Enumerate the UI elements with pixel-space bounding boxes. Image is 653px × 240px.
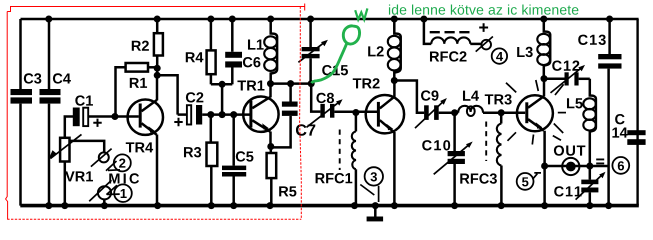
transistor TR4 — [128, 75, 163, 205]
node TR1 base bias — [219, 111, 226, 118]
label RFC2 — [430, 51, 467, 61]
resistor R1 — [116, 63, 158, 118]
label L5 — [567, 98, 583, 108]
resistor R4 — [207, 19, 216, 84]
digit test point 1 — [121, 189, 127, 198]
capacitor C3 — [11, 19, 33, 206]
node C6 top rail — [229, 16, 236, 23]
label C4 — [53, 73, 71, 83]
node TR2 collector — [391, 77, 398, 84]
green arrow — [355, 8, 367, 19]
node C15 top — [307, 16, 314, 23]
wire TR1 collector node — [271, 82, 312, 85]
label TR3 — [485, 94, 512, 104]
OUT terminal — [562, 158, 579, 175]
node TR3 emitter / out — [541, 163, 548, 170]
node VR1 bottom — [61, 202, 68, 209]
transistor TR1 — [243, 84, 278, 147]
inductor L2 — [388, 19, 401, 81]
label C5 — [236, 151, 254, 161]
node L2 top — [391, 16, 398, 23]
label RFC1 — [316, 173, 353, 183]
label OUT — [554, 145, 585, 155]
node C2 branch junction — [154, 72, 161, 79]
wire TR4 base — [112, 115, 139, 118]
red frame left edge — [6, 12, 8, 220]
node R4 top — [207, 16, 214, 23]
label C7 — [296, 124, 315, 135]
node RFC2 rail — [420, 16, 427, 23]
node R3 top — [207, 111, 214, 118]
node R2 top — [154, 16, 161, 23]
antenna trimmer plates — [596, 159, 604, 163]
node RFC3 bottom — [498, 202, 505, 209]
wire output line — [545, 165, 609, 168]
capacitor C5 — [222, 115, 246, 206]
label RFC3 — [460, 173, 497, 183]
node mic ground — [101, 202, 108, 209]
node C7 top — [287, 80, 294, 87]
node C5 top — [230, 111, 237, 118]
potentiometer VR1 — [48, 134, 82, 205]
inductor L3 — [537, 19, 550, 79]
label MIC — [109, 173, 139, 183]
node TR4 base — [111, 113, 118, 120]
mic terminal 2 probe — [91, 149, 112, 167]
wire C2 branch — [157, 75, 177, 114]
node C5 bottom — [230, 202, 237, 209]
red frame corner tick — [304, 4, 306, 11]
red frame top edge — [7, 7, 304, 12]
inductor L4 — [455, 106, 502, 116]
capacitor C6 — [225, 19, 242, 84]
label TR2 — [353, 78, 380, 88]
variable capacitor C8 — [307, 84, 378, 128]
label C14 line1 — [615, 114, 625, 124]
transistor TR3 — [517, 79, 553, 206]
wire TR3 base — [501, 111, 525, 114]
digit test point 2 — [119, 159, 125, 168]
mic terminal 1 probe — [89, 180, 111, 205]
node ground stem — [372, 202, 379, 209]
transistor TR2 — [366, 81, 404, 206]
digit test point 4 — [496, 52, 503, 61]
capacitor C13 — [598, 19, 621, 206]
node R3 bottom — [208, 202, 215, 209]
inductor RFC1 — [340, 113, 356, 206]
label C6 — [243, 57, 261, 67]
node C13 rail — [606, 16, 613, 23]
test point 5 — [517, 173, 541, 190]
green squiggle loop and tail — [312, 26, 360, 83]
label R4 — [186, 52, 204, 62]
inductor RFC3 — [486, 113, 501, 206]
node C10 bottom — [451, 202, 458, 209]
node TR3 collector — [541, 75, 548, 82]
digit test point 5 — [522, 177, 528, 186]
capacitor C7 — [271, 84, 298, 148]
node C11 bottom — [586, 202, 593, 209]
capacitor C1 (electrolytic) — [65, 108, 112, 138]
resistor R2 — [154, 19, 163, 77]
node RFC3 top — [498, 109, 505, 116]
label C3 — [24, 73, 42, 83]
label VR1 — [65, 171, 93, 181]
node R1/R2 junction — [154, 65, 161, 72]
node L1/TR1 collector — [267, 80, 274, 87]
inductor RFC2 — [424, 19, 482, 44]
label C9 — [421, 90, 439, 100]
node C3/C4 ground — [45, 202, 52, 209]
label R5 — [279, 186, 296, 196]
label R3 — [184, 147, 201, 157]
inductor L1 — [264, 19, 277, 84]
label C15 — [322, 65, 348, 75]
node TR1 emitter — [267, 143, 274, 150]
label L3 — [517, 47, 533, 57]
label C10 — [422, 140, 450, 150]
battery plus probe — [476, 23, 493, 51]
label R2 — [132, 41, 149, 51]
node C11 top — [586, 163, 593, 170]
capacitor C2 (electrolytic) — [174, 105, 250, 126]
label R1 — [130, 78, 147, 88]
label L4 — [463, 91, 479, 101]
variable capacitor C9 — [415, 98, 455, 128]
wire TR2 collector to C9 — [394, 81, 424, 113]
test point 4 — [492, 48, 507, 63]
node C13 bottom — [605, 202, 612, 209]
green note text — [389, 4, 578, 14]
wire bottom ground rail — [20, 204, 639, 208]
test point 3 — [360, 167, 383, 202]
text labels as paths — [24, 4, 628, 198]
capacitor C4 — [40, 19, 61, 206]
inductor L5 — [583, 79, 596, 166]
label C8 — [316, 93, 334, 103]
node C15 bottom — [308, 80, 315, 87]
wire bias junction — [211, 84, 232, 114]
node L3 top — [540, 16, 547, 23]
node C10 top — [451, 109, 458, 116]
resistor R3 — [207, 115, 218, 206]
node RFC1 bottom — [351, 202, 358, 209]
resistor R5 — [267, 147, 277, 206]
capacitor C14 — [627, 130, 645, 145]
node TR2 emitter ground — [391, 202, 398, 209]
rays around TR3 — [506, 80, 566, 145]
wire mic feed — [70, 141, 105, 152]
digit test point 3 — [371, 172, 377, 181]
red frame bottom edge — [7, 218, 301, 220]
label C12 — [552, 61, 579, 71]
variable capacitor C15 — [298, 19, 328, 84]
label C1 — [75, 95, 93, 105]
red frame right edge — [300, 7, 302, 220]
node TR4 emitter ground — [154, 202, 161, 209]
digit test point 6 — [618, 161, 624, 170]
wire top supply rail — [21, 18, 639, 20]
variable capacitor C11 — [576, 166, 606, 206]
variable capacitor C12 — [544, 65, 590, 93]
label C2 — [186, 92, 203, 102]
variable capacitor C10 — [434, 113, 473, 206]
node RFC1 top — [352, 109, 359, 116]
test point 1 — [106, 184, 131, 202]
node TR3 emitter ground — [541, 202, 548, 209]
node C4 top — [45, 16, 52, 23]
test point 2 — [106, 154, 131, 171]
test point 6 — [612, 157, 629, 174]
label L2 — [368, 46, 383, 56]
label C11 — [554, 186, 581, 196]
node bias tee — [219, 81, 226, 88]
ground — [367, 206, 384, 222]
label TR4 — [126, 142, 153, 152]
node R5 bottom — [267, 202, 274, 209]
label C14 line2 — [612, 128, 627, 138]
node L1 top — [267, 16, 274, 23]
label L1 — [248, 40, 264, 50]
label TR1 — [237, 80, 264, 90]
wire right edge vertical — [636, 19, 638, 206]
label C13 — [578, 35, 606, 45]
